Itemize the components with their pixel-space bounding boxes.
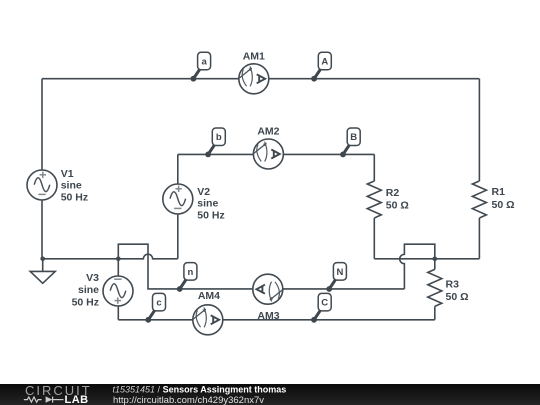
svg-text:V1: V1 — [61, 168, 74, 180]
svg-text:a: a — [201, 57, 207, 68]
svg-text:R1: R1 — [492, 186, 506, 198]
svg-text:50 Hz: 50 Hz — [72, 296, 99, 308]
svg-text:A: A — [321, 57, 328, 68]
svg-text:AM3: AM3 — [257, 310, 279, 322]
svg-text:V3: V3 — [86, 272, 99, 284]
svg-text:sine: sine — [61, 180, 82, 192]
svg-text:N: N — [336, 267, 343, 278]
svg-text:AM2: AM2 — [257, 126, 279, 138]
svg-text:B: B — [350, 132, 357, 143]
svg-text:n: n — [187, 267, 193, 278]
svg-text:http://circuitlab.com/ch429y36: http://circuitlab.com/ch429y362nx7v — [113, 395, 264, 405]
svg-text:AM1: AM1 — [243, 51, 265, 63]
svg-text:V2: V2 — [197, 186, 210, 198]
svg-text:LAB: LAB — [65, 394, 89, 405]
svg-text:b: b — [216, 132, 222, 143]
svg-text:50 Hz: 50 Hz — [197, 209, 224, 221]
svg-text:AM4: AM4 — [198, 290, 220, 302]
svg-text:sine: sine — [78, 284, 99, 296]
svg-text:50 Hz: 50 Hz — [61, 191, 88, 203]
svg-text:50 Ω: 50 Ω — [446, 291, 469, 303]
svg-text:R2: R2 — [386, 187, 400, 199]
svg-text:50 Ω: 50 Ω — [492, 199, 515, 211]
svg-text:50 Ω: 50 Ω — [386, 199, 409, 211]
svg-text:R3: R3 — [446, 279, 460, 291]
svg-text:t15351451 / Sensors Assingment: t15351451 / Sensors Assingment thomas — [113, 385, 287, 395]
svg-text:C: C — [321, 298, 328, 309]
svg-text:sine: sine — [197, 198, 218, 210]
svg-text:c: c — [156, 298, 161, 309]
